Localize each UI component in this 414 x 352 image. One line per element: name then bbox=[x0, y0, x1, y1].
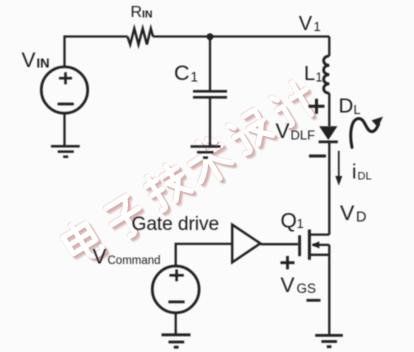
diode DL (zener) triangle and cathode bar bbox=[319, 126, 337, 140]
wire C1 bottom plate to ground bbox=[209, 99, 211, 147]
svg-text:L: L bbox=[354, 103, 361, 117]
svg-text:1: 1 bbox=[314, 19, 321, 34]
svg-text:IN: IN bbox=[37, 56, 50, 71]
inductor L1 coil bbox=[324, 56, 330, 93]
VCommand polarity minus bbox=[168, 300, 184, 303]
svg-text:1: 1 bbox=[297, 217, 304, 231]
svg-text:Gate drive: Gate drive bbox=[132, 214, 220, 235]
svg-text:V: V bbox=[93, 246, 107, 269]
svg-text:V: V bbox=[299, 13, 313, 35]
svg-text:Command: Command bbox=[108, 255, 161, 267]
wire VIN bottom to ground bbox=[63, 113, 65, 146]
ground under C1 bbox=[191, 147, 221, 158]
svg-text:R: R bbox=[131, 4, 143, 21]
wire Q1 source down to ground bbox=[328, 245, 330, 335]
svg-text:DLF: DLF bbox=[291, 127, 316, 142]
svg-text:GS: GS bbox=[297, 281, 317, 296]
VIN polarity plus bbox=[59, 72, 72, 84]
svg-text:Q: Q bbox=[281, 210, 297, 233]
transistor Q1 body arrow head bbox=[312, 241, 320, 248]
wire L1 to diode DL anode bbox=[328, 93, 330, 126]
VGS polarity plus bbox=[281, 256, 295, 269]
voltage source VIN circle bbox=[41, 67, 87, 113]
VDLF polarity plus bbox=[309, 99, 325, 114]
gate drive buffer U1 triangle bbox=[232, 225, 260, 263]
svg-text:IN: IN bbox=[142, 9, 153, 21]
transistor Q1 body lead bbox=[313, 244, 330, 246]
transistor Q1 drain lead bbox=[310, 233, 329, 235]
svg-text:V: V bbox=[276, 120, 290, 143]
wire top rail to node V1 corner bbox=[153, 35, 329, 37]
VIN polarity minus bbox=[58, 103, 74, 106]
svg-text:1: 1 bbox=[316, 71, 323, 85]
svg-text:i: i bbox=[352, 161, 356, 183]
ground under Q1 source bbox=[315, 335, 343, 346]
transistor Q1 source lead bbox=[310, 254, 329, 256]
svg-text:C: C bbox=[174, 61, 190, 85]
wire buffer output to Q1 gate bbox=[261, 243, 299, 245]
ground under VCommand bbox=[162, 335, 191, 347]
node junction dot (C1 tap on top rail) bbox=[207, 33, 214, 40]
svg-text:V: V bbox=[22, 49, 36, 72]
ground under VIN bbox=[51, 146, 80, 157]
wire VCommand to buffer input bbox=[176, 244, 232, 266]
svg-text:1: 1 bbox=[191, 70, 199, 85]
resistor R1 (RIN) zigzag bbox=[128, 29, 154, 45]
VGS polarity minus bbox=[307, 299, 321, 302]
squiggle indicator arrow at DL bbox=[351, 119, 379, 148]
svg-text:D: D bbox=[339, 95, 354, 118]
svg-text:DL: DL bbox=[358, 170, 372, 182]
svg-text:D: D bbox=[356, 210, 366, 226]
wire VCommand down to ground bbox=[175, 313, 177, 335]
capacitor C1 plates bbox=[193, 91, 227, 97]
watermark 电子技术设计 bbox=[64, 82, 322, 269]
svg-text:V: V bbox=[281, 274, 295, 297]
VCommand polarity plus bbox=[169, 269, 183, 281]
svg-text:V: V bbox=[340, 201, 355, 225]
svg-text:L: L bbox=[304, 63, 315, 85]
voltage source VCommand circle bbox=[152, 266, 199, 313]
wire from VIN top to resistor RIN bbox=[65, 37, 128, 67]
transistor Q1 channel bar bbox=[308, 230, 311, 260]
wire diode DL cathode to node VD / Q1 drain bbox=[328, 142, 330, 235]
wire node V1 down to L1 bbox=[328, 37, 330, 57]
transistor Q1 gate bar bbox=[298, 235, 301, 256]
VDLF polarity minus bbox=[309, 155, 326, 158]
current arrow iDL bbox=[338, 151, 340, 176]
wire junction node to C1 top plate bbox=[209, 37, 211, 91]
